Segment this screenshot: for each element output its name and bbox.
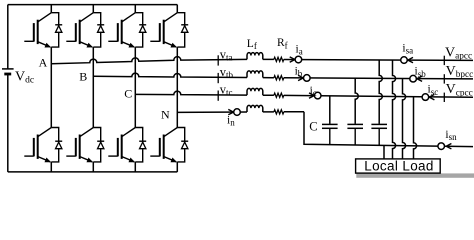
svg-text:C: C: [309, 119, 317, 133]
current sensor circle i_sa: [401, 57, 408, 64]
freewheel diode of S8 bottom of leg N: [177, 128, 188, 162]
wire: leg 3 collector drop from top bus: [134, 5, 136, 13]
transistor S1 top of leg A (IGBT): [24, 13, 51, 48]
wire: leg 4 collector drop from top bus: [176, 5, 178, 13]
svg-text:A: A: [39, 55, 48, 69]
wire: leg 4 emitter drop to bottom bus: [176, 162, 178, 172]
svg-text:Local Load: Local Load: [364, 159, 434, 174]
freewheel diode of S1 top of leg A: [51, 13, 62, 47]
svg-text:B: B: [79, 69, 87, 83]
current arrow i_n: [228, 109, 233, 114]
wire: phase B drop to local load: [403, 79, 406, 159]
current sensor circle i_sc: [422, 94, 429, 101]
freewheel diode of S4 top of leg N: [177, 13, 188, 47]
transistor S4 top of leg N (IGBT): [150, 13, 177, 48]
current arrow i_b: [298, 75, 303, 80]
current arrow i_sn: [446, 144, 451, 149]
wire: phase C output line: [135, 91, 473, 97]
wire: leg 2 collector drop from top bus: [92, 5, 94, 13]
wire: phase B drop to capacitor bank: [355, 78, 358, 124]
node v_tc measurement tick: [217, 91, 219, 101]
battery V_dc (DC source): [2, 69, 14, 74]
transistor S2 top of leg B (IGBT): [66, 13, 93, 48]
transistor S5 bottom of leg A (IGBT): [24, 128, 51, 163]
wire: leg 1 collector drop from top bus: [50, 5, 52, 13]
current sensor circle i_c: [314, 92, 321, 99]
wire: phase C drop to capacitor bank: [329, 96, 331, 124]
wire: neutral rail to load/PCC: [304, 112, 473, 147]
wire: phase A output line: [51, 57, 473, 64]
node v_cpcc tick: [443, 93, 445, 102]
capacitor C phase C: [322, 124, 338, 144]
wire: leg 1 midpoint vertical: [50, 47, 52, 127]
inductor L_f phase B: [247, 71, 263, 78]
wire: leg 3 emitter drop to bottom bus: [134, 162, 136, 172]
wire: phase A drop to capacitor bank: [379, 60, 382, 124]
wire: neutral connection to local load: [383, 145, 385, 159]
wire: phase B output line: [93, 73, 473, 79]
freewheel diode of S2 top of leg B: [93, 13, 104, 47]
wire: leg 2 emitter drop to bottom bus: [92, 162, 94, 172]
node v_apcc tick: [443, 56, 445, 65]
current sensor circle i_sn: [438, 143, 445, 150]
inductor L_f phase A: [247, 53, 263, 60]
wire: phase A drop to local load: [393, 60, 396, 159]
node v_tb measurement tick: [217, 73, 219, 83]
freewheel diode of S5 bottom of leg A: [51, 128, 62, 162]
wire: DC source lower lead: [7, 74, 9, 172]
inductor L_f neutral: [247, 105, 263, 112]
resistor R_f neutral: [274, 110, 284, 114]
resistor R_f phase B: [274, 76, 284, 80]
current arrow i_sc: [429, 94, 434, 99]
wire: phase C drop to local load: [414, 97, 417, 159]
resistor R_f phase C: [274, 93, 284, 97]
current arrow i_c: [309, 93, 314, 98]
wire: leg 1 emitter drop to bottom bus: [50, 162, 52, 172]
wire: negative DC bus (bottom rail): [8, 171, 178, 173]
wire: neutral N output line: [177, 111, 304, 114]
svg-text:N: N: [161, 108, 170, 122]
wire: leg 2 midpoint vertical: [92, 47, 94, 127]
freewheel diode of S3 top of leg C: [135, 13, 146, 47]
current arrow i_a: [290, 57, 295, 62]
capacitor C phase A: [371, 124, 387, 145]
freewheel diode of S6 bottom of leg B: [93, 128, 104, 162]
local load shadow: [356, 173, 474, 177]
transistor S7 bottom of leg C (IGBT): [108, 128, 135, 163]
transistor S3 top of leg C (IGBT): [108, 13, 135, 48]
node v_ta measurement tick: [217, 55, 219, 65]
capacitor C phase B: [347, 124, 363, 145]
wire: positive DC bus (top rail): [8, 4, 178, 6]
transistor S8 bottom of leg N (IGBT): [150, 128, 177, 163]
inductor L_f phase C: [247, 88, 263, 95]
current sensor circle i_a: [295, 56, 302, 63]
transistor S6 bottom of leg B (IGBT): [66, 128, 93, 163]
current sensor circle i_b: [304, 75, 311, 82]
node v_bpcc tick: [443, 74, 445, 83]
freewheel diode of S7 bottom of leg C: [135, 128, 146, 162]
svg-text:C: C: [124, 87, 132, 101]
local load box: [356, 159, 441, 173]
wire: DC source upper lead: [7, 5, 9, 69]
resistor R_f phase A: [274, 57, 284, 61]
wire: leg 3 midpoint vertical: [134, 47, 136, 127]
current sensor circle i_n: [234, 109, 241, 116]
current sensor circle i_sb: [410, 75, 417, 82]
wire: leg 4 midpoint vertical: [176, 47, 178, 127]
current arrow i_sb: [417, 76, 422, 81]
current arrow i_sa: [408, 57, 413, 62]
